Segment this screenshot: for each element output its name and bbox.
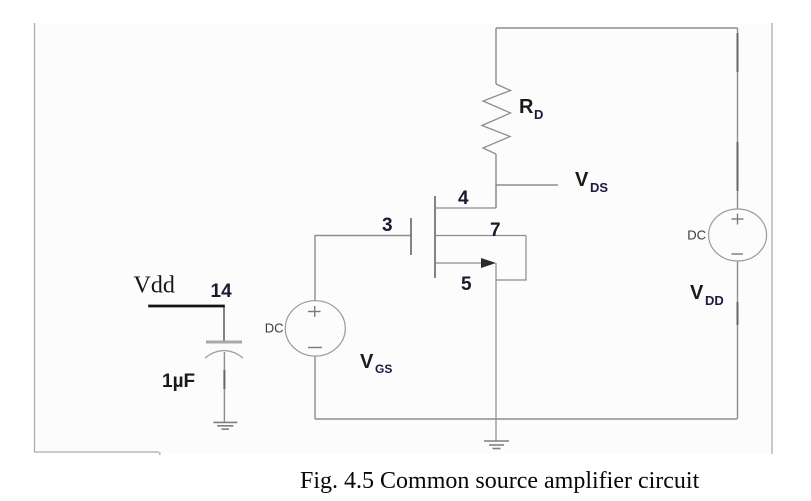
svg-text:V: V <box>690 282 704 304</box>
svg-text:R: R <box>519 96 534 118</box>
svg-text:1µF: 1µF <box>162 371 195 392</box>
svg-text:7: 7 <box>490 220 501 241</box>
svg-text:DC: DC <box>265 321 284 336</box>
svg-text:GS: GS <box>375 362 392 376</box>
svg-text:Vdd: Vdd <box>134 273 175 299</box>
svg-text:DC: DC <box>687 228 706 243</box>
svg-text:5: 5 <box>461 274 472 295</box>
svg-text:V: V <box>575 169 589 191</box>
svg-text:V: V <box>360 351 374 373</box>
svg-text:DD: DD <box>705 293 724 308</box>
svg-text:DS: DS <box>590 180 608 195</box>
svg-text:3: 3 <box>382 215 393 236</box>
svg-text:D: D <box>534 107 543 122</box>
svg-text:Fig. 4.5 Common source amplifi: Fig. 4.5 Common source amplifier circuit <box>300 468 700 494</box>
svg-text:4: 4 <box>458 188 469 209</box>
svg-text:14: 14 <box>211 281 233 302</box>
